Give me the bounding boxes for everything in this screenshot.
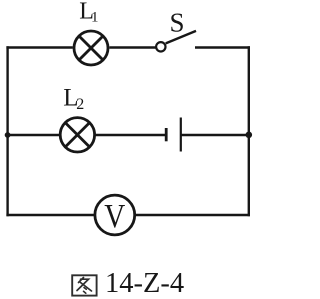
voltmeter V — [95, 195, 135, 235]
battery positive plate (long) — [180, 118, 182, 152]
battery negative plate (short) — [165, 128, 168, 141]
svg-text:1: 1 — [91, 10, 99, 26]
wire middle segment (lamp L2 to battery) — [95, 134, 166, 136]
svg-text:S: S — [170, 7, 185, 37]
wire switch fixed contact segment — [195, 46, 250, 48]
lamp L2 — [60, 118, 94, 152]
caption character 图 (drawn) — [72, 275, 96, 295]
junction node left — [5, 132, 11, 138]
wire bottom-right segment — [135, 214, 250, 216]
wire bottom-left segment — [6, 214, 95, 216]
svg-text:2: 2 — [76, 96, 84, 113]
wire top-middle segment (lamp L1 to switch) — [109, 46, 156, 48]
junction node right — [246, 132, 253, 139]
switch S lever — [166, 31, 196, 44]
wire top-left segment — [6, 46, 72, 48]
wire right vertical — [248, 46, 250, 216]
wire middle-left segment — [6, 134, 60, 136]
wire middle-right segment (battery to right wire) — [181, 134, 250, 136]
svg-text:14-Z-4: 14-Z-4 — [105, 268, 184, 299]
svg-text:V: V — [104, 198, 125, 235]
switch S contact circle — [156, 42, 165, 51]
wire left vertical — [6, 46, 8, 216]
lamp L1 — [74, 31, 108, 65]
